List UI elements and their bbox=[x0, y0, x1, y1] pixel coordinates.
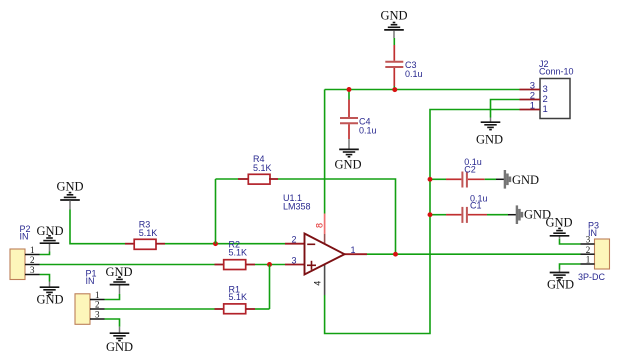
svg-text:GND: GND bbox=[545, 216, 572, 230]
svg-text:Conn-10: Conn-10 bbox=[539, 67, 574, 77]
op-amp U1 pin 3 stub bbox=[285, 264, 305, 266]
pin 2 of P3 bbox=[581, 245, 595, 255]
svg-text:1: 1 bbox=[586, 255, 591, 265]
ground below P2 pin3 bbox=[36, 282, 63, 307]
svg-text:1: 1 bbox=[543, 104, 548, 115]
svg-text:C2: C2 bbox=[464, 164, 476, 174]
svg-text:GND: GND bbox=[380, 8, 407, 22]
ground right of C1 bbox=[508, 205, 551, 224]
svg-text:2: 2 bbox=[291, 235, 296, 245]
capacitor C2 bbox=[430, 157, 485, 188]
node junction feedback on pin2 wire bbox=[213, 241, 218, 246]
pin 1 of P3 bbox=[581, 255, 595, 265]
pin 2 of P1 bbox=[90, 300, 105, 310]
wire output net bbox=[367, 253, 581, 255]
resistor R4 bbox=[216, 154, 279, 184]
pin 1 of J2 bbox=[520, 100, 548, 115]
wire V+ vertical to op-amp pin 8 bbox=[324, 90, 326, 214]
svg-text:1: 1 bbox=[530, 100, 535, 111]
svg-text:2: 2 bbox=[30, 255, 35, 265]
svg-text:5.1K: 5.1K bbox=[229, 247, 248, 257]
ground above P2 pin1 bbox=[36, 224, 63, 252]
svg-text:1: 1 bbox=[95, 290, 100, 300]
wire P3 pin1 to ground bbox=[560, 264, 581, 270]
svg-text:0.1u: 0.1u bbox=[405, 69, 423, 79]
node junction C3 on V+ bbox=[392, 87, 397, 92]
svg-text:1: 1 bbox=[350, 245, 355, 255]
capacitor C1 bbox=[430, 193, 488, 223]
op-amp U1 pin 8 stub bbox=[324, 214, 326, 235]
wire P1 pin2 to R1 bbox=[105, 308, 215, 310]
wire P2 pin3 to ground bbox=[40, 275, 50, 282]
ground GND top-left for R3 net bbox=[56, 180, 83, 210]
connector P1 bbox=[75, 269, 97, 325]
capacitor C4 bbox=[340, 90, 377, 140]
pin 1 of P1 bbox=[90, 290, 105, 300]
wire R1 to junction bbox=[255, 308, 270, 310]
svg-text:5.1K: 5.1K bbox=[253, 163, 272, 173]
wire GND to R3 bbox=[70, 210, 125, 244]
ground below P1 pin3 bbox=[106, 327, 133, 354]
ground below C4 bbox=[334, 139, 361, 172]
node junction C4 on V+ bbox=[347, 87, 352, 92]
svg-text:GND: GND bbox=[476, 133, 503, 147]
svg-text:4: 4 bbox=[313, 281, 323, 286]
wire R2 to op-amp pin 3 bbox=[255, 264, 285, 266]
op-amp U1 pin 2 stub bbox=[285, 243, 305, 245]
wire P1 pin3 to ground bbox=[105, 319, 120, 327]
svg-text:GND: GND bbox=[547, 277, 574, 291]
wire feedback left vertical bbox=[215, 179, 217, 244]
svg-text:3: 3 bbox=[95, 310, 100, 320]
connector P3 bbox=[578, 221, 610, 282]
resistor R1 bbox=[215, 285, 256, 314]
pin 3 of P2 bbox=[25, 265, 40, 275]
ground above P3 pin3 bbox=[545, 216, 572, 239]
svg-text:GND: GND bbox=[36, 224, 63, 238]
svg-text:3: 3 bbox=[30, 265, 35, 275]
node junction C1 on V- bbox=[428, 212, 433, 217]
svg-text:C1: C1 bbox=[470, 200, 482, 210]
svg-text:GND: GND bbox=[106, 340, 133, 354]
resistor R2 bbox=[215, 239, 256, 269]
wire J2 pin2 to ground bbox=[491, 100, 520, 118]
pin 3 of P1 bbox=[90, 310, 105, 320]
svg-text:GND: GND bbox=[334, 158, 361, 172]
node junction R1 branch on pin3 wire bbox=[267, 262, 272, 267]
pin 2 of J2 bbox=[520, 90, 548, 105]
wire C1 to ground bbox=[487, 214, 508, 216]
svg-text:3P-DC: 3P-DC bbox=[578, 272, 606, 282]
svg-text:GND: GND bbox=[36, 292, 63, 306]
svg-text:3: 3 bbox=[586, 235, 591, 245]
node junction feedback on output bbox=[393, 252, 398, 257]
ground below P3 pin1 bbox=[547, 270, 574, 292]
svg-text:GND: GND bbox=[105, 265, 132, 279]
ground below J2 pin2 bbox=[476, 118, 503, 147]
wire P2 pin2 to R2 bbox=[40, 264, 215, 266]
ground above P1 pin1 bbox=[105, 265, 132, 294]
capacitor C3 bbox=[385, 45, 422, 90]
svg-text:GND: GND bbox=[56, 180, 83, 194]
svg-text:0.1u: 0.1u bbox=[359, 126, 377, 136]
ground top GND above C3 bbox=[380, 8, 407, 38]
pin 3 of P3 bbox=[581, 235, 595, 245]
svg-text:8: 8 bbox=[315, 223, 325, 228]
ground right of C2 bbox=[496, 170, 539, 189]
wire C2 to ground bbox=[485, 178, 496, 180]
op-amp U1 output stub bbox=[345, 253, 368, 255]
wire R4 to feedback right vertical bbox=[278, 179, 396, 254]
svg-text:IN: IN bbox=[86, 276, 95, 286]
op-amp U1.1 LM358 triangle bbox=[283, 193, 345, 275]
connector J2 Conn-10 bbox=[539, 59, 574, 119]
pin 1 of P2 bbox=[25, 245, 40, 255]
wire P2 pin1 to ground bbox=[40, 252, 50, 255]
svg-text:GND: GND bbox=[512, 173, 539, 187]
svg-text:2: 2 bbox=[586, 245, 591, 255]
svg-text:IN: IN bbox=[20, 232, 29, 242]
svg-text:2: 2 bbox=[95, 300, 100, 310]
wire short green below top GND bbox=[393, 38, 395, 45]
wire J2 pin1 / V- net bbox=[325, 110, 520, 334]
connector P2 bbox=[10, 224, 31, 280]
node junction C2 on V- bbox=[428, 177, 433, 182]
svg-text:5.1K: 5.1K bbox=[139, 228, 158, 238]
wire V+ supply horizontal net bbox=[325, 89, 520, 91]
op-amp U1 pin 4 stub bbox=[324, 264, 326, 295]
wire R1 branch vertical bbox=[269, 265, 271, 310]
pin 2 of P2 bbox=[25, 255, 40, 265]
resistor R3 bbox=[125, 220, 165, 250]
pin 3 of J2 bbox=[520, 80, 548, 95]
svg-text:3: 3 bbox=[291, 255, 296, 265]
svg-text:LM358: LM358 bbox=[283, 202, 311, 212]
wire P3 pin3 to ground bbox=[560, 239, 581, 244]
wire R3 to op-amp pin 2 bbox=[165, 243, 285, 245]
wire P1 pin1 to ground bbox=[105, 294, 120, 300]
svg-text:1: 1 bbox=[30, 245, 35, 255]
svg-text:5.1K: 5.1K bbox=[229, 292, 248, 302]
